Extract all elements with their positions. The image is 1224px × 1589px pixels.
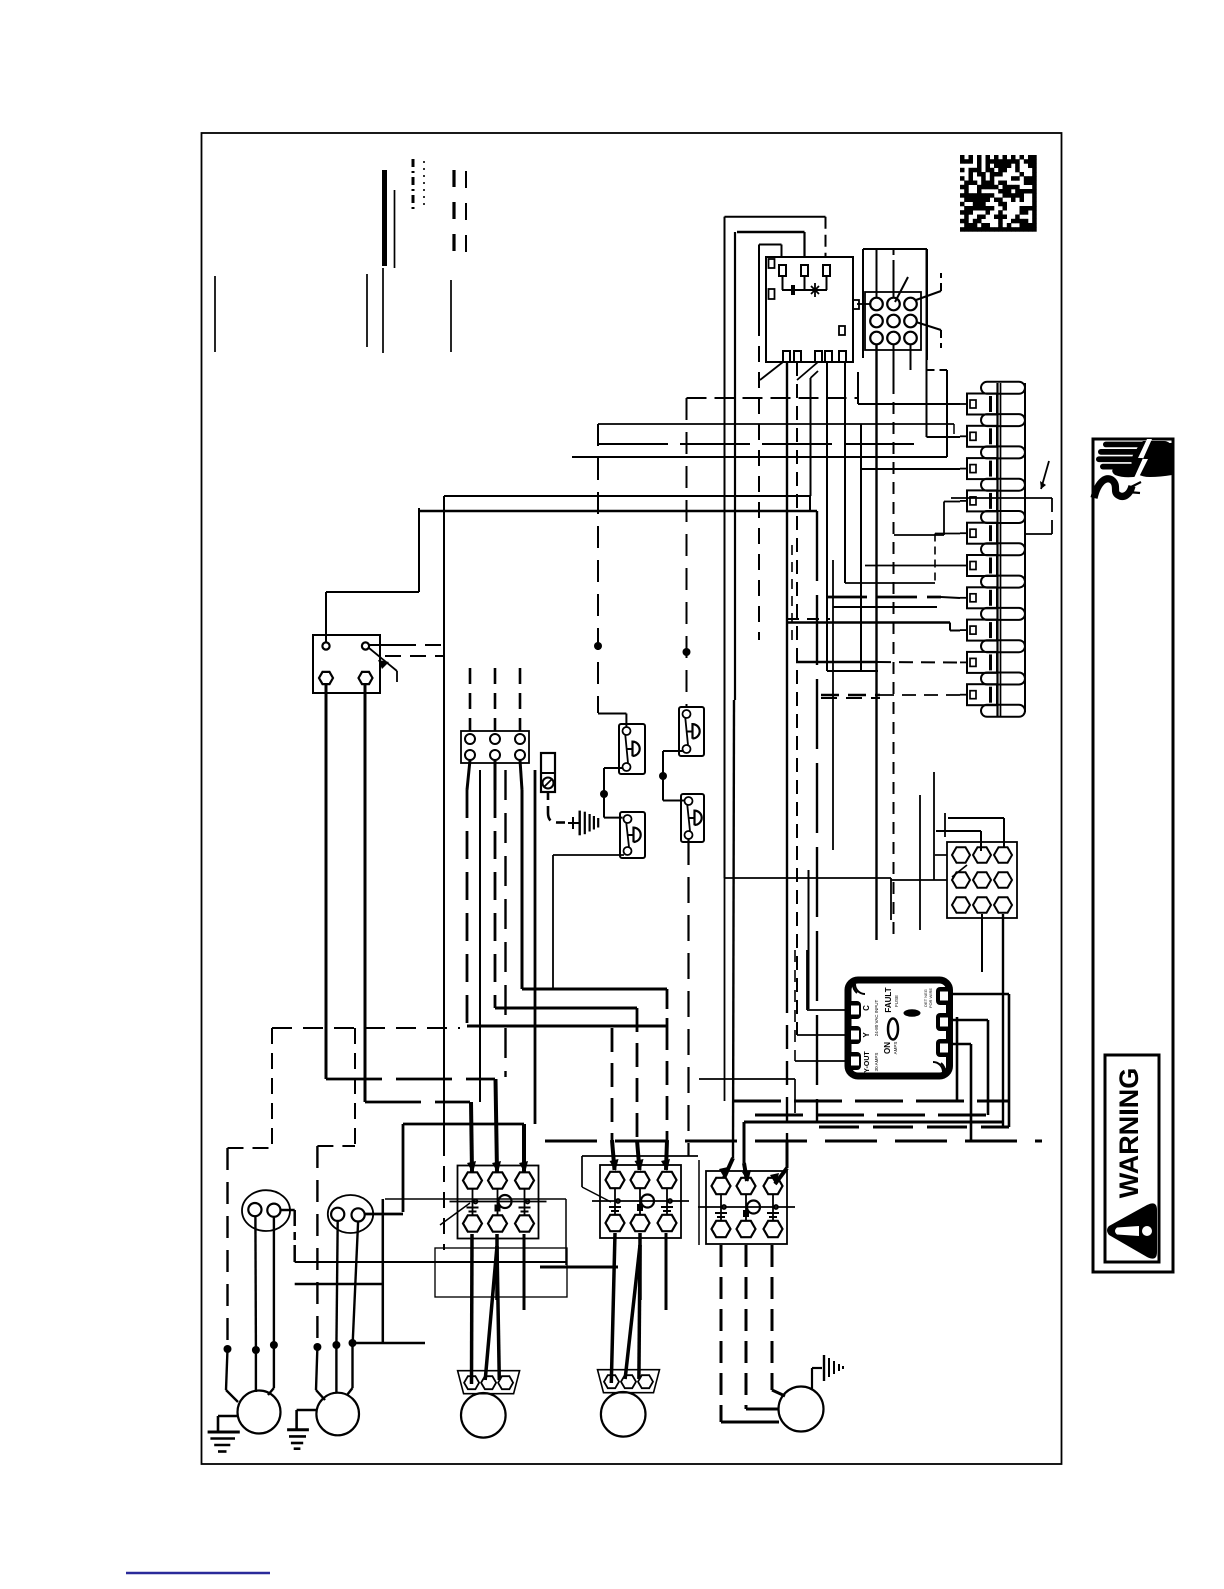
ground (chassis) near fuse: [568, 811, 598, 836]
wire pin left: [853, 300, 871, 309]
wire oval1 right: [281, 1199, 567, 1265]
plug pair oval 2: [328, 1195, 373, 1233]
wire pin up b: [893, 250, 895, 299]
earth ground motor 2: [287, 1410, 316, 1449]
wire c3 out M: [746, 1245, 779, 1409]
wire arrow c1h3: [519, 1124, 528, 1173]
motor 4: [601, 1392, 646, 1437]
wire B-D link: [663, 751, 683, 776]
wire V861b: [860, 444, 862, 469]
wire H457: [572, 456, 947, 458]
wire hook inner: [759, 245, 782, 641]
wire V934b: [933, 772, 935, 880]
wire V444 long: [443, 496, 445, 1250]
wire H496: [444, 495, 810, 497]
earth ground motor 1: [208, 1416, 240, 1452]
wire fault left verticals: [792, 545, 807, 1061]
motor 1: [238, 1391, 281, 1434]
wire to A top: [598, 714, 626, 728]
svg-text:FUSE: FUSE: [894, 995, 899, 1007]
wire oval1 branch: [295, 1199, 566, 1343]
wire pin down a: [875, 344, 877, 941]
wire blockM out: [495, 760, 644, 1171]
wire T9: [796, 661, 960, 664]
wire fault right 2: [951, 1020, 988, 1115]
wire T10: [821, 694, 960, 696]
svg-text:ON: ON: [883, 1042, 892, 1054]
wire dash left mesh: [272, 1027, 460, 1029]
contactor 1 callout box: [435, 1248, 567, 1297]
wire fault left 3: [795, 1060, 847, 1062]
wire motor1 feeds: [226, 1345, 274, 1402]
door interlock switch: [313, 635, 397, 693]
wire hexconn top: [936, 818, 1004, 851]
wire V957: [956, 1017, 959, 1101]
fault control module: [847, 980, 950, 1076]
wire board-out diag b: [797, 362, 818, 380]
wire c3h2 feed: [742, 1122, 751, 1182]
limit switch C: [620, 812, 645, 858]
wire H1141: [545, 1140, 1042, 1143]
wire hook outer: [725, 217, 826, 878]
legend thin solid line sample 3: [366, 274, 368, 347]
wire T7: [827, 597, 960, 598]
wire trio A2: [504, 770, 506, 1077]
wire H1122: [744, 1121, 1003, 1124]
wire switch hexL down: [326, 685, 495, 1079]
wire motor5 ground: [812, 1368, 822, 1390]
motor 2: [316, 1393, 359, 1436]
wire fault right 3: [951, 1044, 971, 1141]
wire V920: [919, 795, 921, 930]
wire C bottom left: [553, 855, 624, 989]
contactor 1: [450, 1166, 547, 1239]
limit switch D: [681, 794, 704, 842]
wire trio A1: [479, 770, 481, 1102]
bracket arrow: [1040, 461, 1049, 489]
wire H424 thin: [598, 424, 954, 434]
wire V598 dashed: [597, 424, 599, 713]
wire V808: [808, 870, 810, 1009]
svg-text:24-80 VAC INPUT: 24-80 VAC INPUT: [874, 1000, 879, 1037]
wire hexconn left: [920, 855, 947, 880]
wire T1: [687, 372, 961, 404]
wire to D top: [663, 776, 685, 801]
node dot 598: [594, 642, 602, 650]
wire fault left 2: [797, 1034, 847, 1036]
wire to C top: [604, 794, 623, 818]
wire T2: [927, 249, 961, 437]
contactor 1 callout line: [440, 1203, 470, 1225]
control board (transformer box): [766, 257, 853, 362]
svg-text:30 AMPS: 30 AMPS: [874, 1053, 879, 1072]
wire pin right a: [916, 273, 941, 300]
wire pin down b: [893, 344, 895, 941]
svg-text:FOR WIRE: FOR WIRE: [928, 988, 933, 1008]
wire bracket feed: [951, 497, 1026, 499]
wire T6: [865, 565, 960, 567]
data matrix barcode: [960, 155, 1037, 232]
wire pin down c: [910, 344, 912, 371]
wire trio A3: [534, 770, 537, 1124]
wire V947: [927, 370, 948, 457]
bracket right of strip: [1026, 498, 1052, 534]
plug pair oval 1: [242, 1190, 290, 1231]
wire hook middle: [719, 232, 805, 1179]
wire board-out 4: [827, 362, 878, 671]
wire board-out 3: [810, 378, 812, 496]
wire c2 out d1: [625, 1245, 640, 1379]
electric shock hand icon: [1094, 439, 1173, 498]
wire oval2 hooks dashed: [317, 1028, 355, 1347]
wire V833: [832, 560, 834, 850]
contactor 2: [592, 1165, 689, 1238]
wire c3 out L: [721, 1245, 779, 1422]
wire T3: [861, 424, 960, 670]
wire H444: [598, 443, 926, 445]
wire V686 dashed: [686, 398, 688, 707]
motor 5: [779, 1387, 824, 1432]
wire c2 out M: [638, 1233, 642, 1300]
node dot 686: [683, 648, 691, 656]
wire T8: [788, 623, 960, 631]
wire blockC out: [520, 760, 667, 1026]
wire switch dashed b: [385, 655, 444, 657]
wire pin diag: [895, 277, 908, 302]
wire block feeds dashed: [470, 668, 520, 731]
wire H1127: [819, 1126, 1009, 1129]
fuse link: [541, 753, 555, 792]
wire motor2 feeds: [316, 1343, 353, 1400]
svg-text:Y: Y: [862, 1032, 871, 1038]
wire A-C link: [604, 768, 623, 794]
wire arrow c1h1: [467, 1102, 476, 1173]
ground (chassis) motor 5: [824, 1355, 843, 1381]
contactor 3 thin lines: [699, 1079, 795, 1245]
3-terminal block: [461, 731, 529, 763]
legend thin solid line sample: [394, 190, 396, 268]
motor 3: [461, 1393, 506, 1438]
legend thick solid line sample: [382, 170, 387, 266]
wire V787 lower: [786, 989, 788, 1141]
wire oval hooks dashed: [228, 1028, 273, 1347]
3x3 hex plug connector: [947, 842, 1017, 918]
warning label outer box: [1093, 439, 1173, 1272]
WARNING sign box with triangle icon: [1105, 1055, 1159, 1262]
wire c1 out M: [495, 1234, 499, 1300]
wire oval2 downs: [336, 1221, 358, 1347]
diagram border frame: [202, 133, 1062, 1464]
wire switch dashed a: [369, 644, 444, 646]
wire switch hexR down: [365, 685, 470, 1102]
wire c3h3 feed: [770, 1141, 787, 1185]
terminal strip 10-position: [960, 382, 1025, 717]
wire c1 out L: [470, 1234, 474, 1384]
wire fault left 1: [807, 1009, 847, 1011]
wire hexconn bottom right: [1002, 914, 1004, 1127]
junction dots motors: [224, 1339, 357, 1354]
wire V945: [944, 813, 946, 837]
node dot 663: [659, 772, 667, 780]
limit switch A: [619, 724, 645, 774]
wire H878: [725, 877, 892, 879]
motor 3 terminal bracket: [458, 1371, 520, 1394]
legend dash-dot line sample: [412, 159, 415, 211]
wire oval2 right: [364, 1124, 524, 1214]
wire c1 out d1: [485, 1246, 497, 1380]
wire c2 out R: [665, 1233, 668, 1310]
legend thin solid line sample 4: [214, 276, 216, 352]
contactor 3: [698, 1171, 795, 1244]
wire board-out 2: [796, 362, 798, 1035]
contactor 2 callout hook: [582, 1156, 698, 1202]
wire c1 out d2: [497, 1246, 499, 1380]
wire blockL out: [467, 760, 670, 1171]
wire board-out diag a: [760, 362, 783, 380]
legend dashed line sample a: [452, 170, 455, 264]
9-pin plug connector: [863, 249, 927, 360]
contactor 1 side lines: [520, 1199, 618, 1267]
wire V724: [724, 217, 726, 1101]
legend thin solid line sample 5: [450, 280, 452, 352]
wire T7b: [833, 606, 937, 608]
wire V891: [891, 878, 920, 920]
node dot 604: [600, 790, 608, 798]
legend dotted line sample: [423, 161, 425, 209]
wire H511: [419, 510, 817, 512]
svg-text:WARNING: WARNING: [1114, 1068, 1144, 1199]
wire H1115: [755, 1114, 988, 1117]
svg-text:Y-OUT: Y-OUT: [864, 1051, 871, 1073]
wire T5: [845, 534, 960, 584]
wire c2h1 feed: [610, 1028, 619, 1171]
wire pin up a: [876, 250, 878, 299]
footer blue rule: [126, 1572, 270, 1575]
wire c2 out L: [611, 1233, 615, 1383]
wire hexconn bottom mid: [981, 914, 983, 972]
wire V810: [809, 496, 811, 511]
wire H619: [787, 618, 830, 620]
svg-text:FAULT: FAULT: [884, 987, 893, 1012]
wire board-out 5: [844, 362, 846, 583]
limit switch B: [679, 707, 704, 756]
wire c1 out R: [523, 1234, 526, 1310]
wire board-out 1: [786, 362, 788, 989]
wire arrow c1h2: [492, 1079, 501, 1173]
wire H698 dash: [821, 697, 880, 699]
motor 4 terminal bracket: [598, 1370, 660, 1393]
svg-text:AMPS: AMPS: [893, 1042, 898, 1055]
wire pin right b: [916, 322, 941, 348]
wire fuse down: [548, 792, 568, 823]
wire H1101: [733, 1100, 1009, 1103]
wire switch A: [326, 508, 419, 642]
wire c3 out R: [772, 1245, 785, 1396]
wire V817: [816, 511, 818, 1122]
legend dashed line sample b: [465, 171, 467, 263]
wire D bottom down: [687, 839, 689, 1156]
wire oval1 downs: [255, 1216, 274, 1347]
wire fault right 1: [951, 994, 1009, 1127]
svg-text:C: C: [862, 1005, 871, 1011]
wire T4: [894, 502, 960, 536]
legend thin solid line sample 2: [382, 268, 384, 353]
wire c2 out d2: [639, 1245, 640, 1379]
